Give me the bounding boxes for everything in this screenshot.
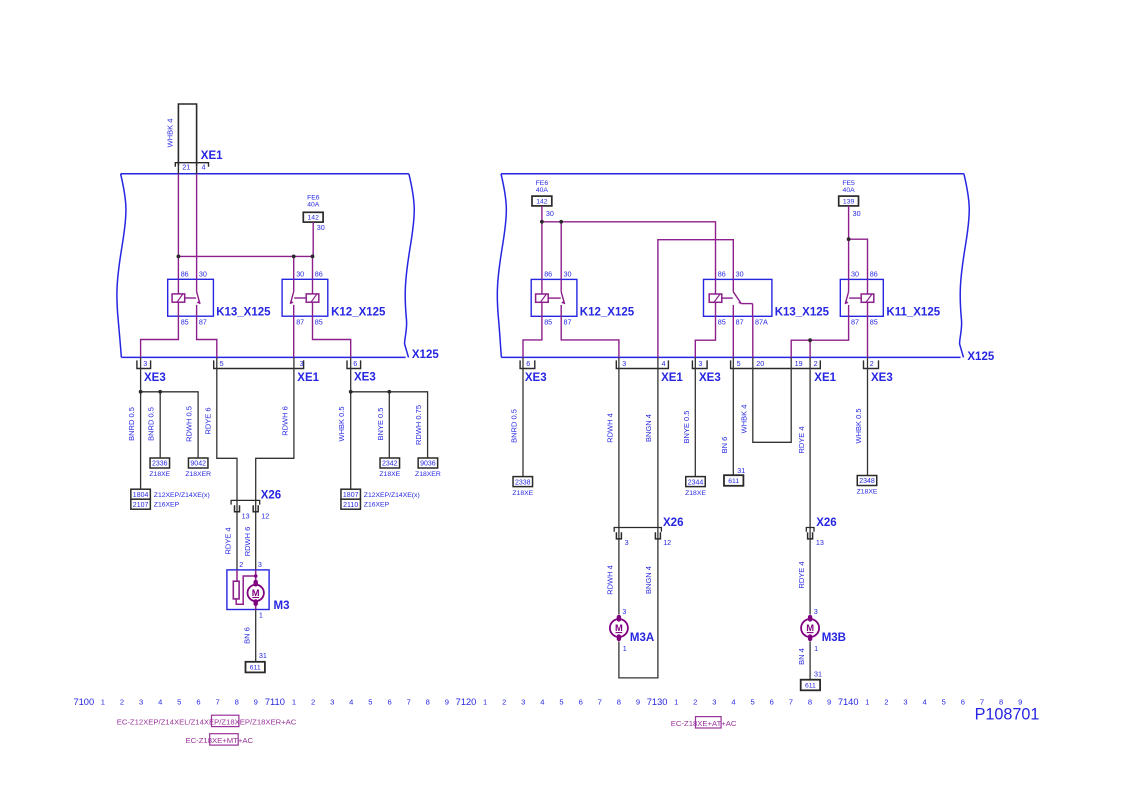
svg-text:12: 12 [663, 538, 671, 547]
link box (line 2) [210, 734, 239, 745]
svg-text:6: 6 [961, 698, 965, 707]
svg-text:31: 31 [259, 651, 267, 660]
svg-text:3: 3 [903, 698, 907, 707]
svg-text:FE6: FE6 [536, 180, 549, 187]
svg-text:M: M [615, 622, 623, 633]
svg-text:8: 8 [808, 698, 812, 707]
svg-text:87: 87 [199, 318, 207, 327]
svg-text:M3: M3 [274, 600, 290, 612]
fuse/relay box X125 (right) outline [501, 173, 964, 175]
wire BN 6 to ground 611 [732, 357, 734, 475]
svg-text:X125: X125 [412, 349, 439, 361]
svg-text:7100: 7100 [73, 697, 94, 707]
svg-text:30: 30 [199, 270, 207, 279]
svg-text:9042: 9042 [190, 461, 206, 468]
svg-text:XE3: XE3 [871, 372, 893, 384]
svg-text:6: 6 [526, 359, 530, 368]
svg-text:Z18XE: Z18XE [379, 471, 400, 478]
svg-text:30: 30 [564, 270, 572, 279]
connector XE3 pin 3 (left) [137, 360, 151, 368]
fuse/relay box X125 (left) outline [121, 173, 409, 175]
wire K11-85 to XE3 pin 2 [867, 316, 869, 357]
svg-text:FE6: FE6 [307, 195, 320, 202]
svg-text:1: 1 [865, 698, 869, 707]
connector XE1 pins 5/20/19/2 [731, 360, 821, 368]
svg-text:Z18XE: Z18XE [512, 490, 533, 497]
svg-text:611: 611 [250, 664, 261, 671]
svg-text:85: 85 [315, 318, 323, 327]
svg-text:5: 5 [220, 359, 224, 368]
svg-text:BNYE 0.5: BNYE 0.5 [682, 411, 691, 444]
svg-text:40A: 40A [307, 202, 320, 209]
svg-text:3: 3 [814, 607, 818, 616]
svg-text:X26: X26 [261, 490, 281, 502]
svg-text:6: 6 [387, 698, 391, 707]
svg-text:3: 3 [258, 560, 262, 569]
svg-text:XE1: XE1 [814, 372, 836, 384]
svg-text:XE3: XE3 [354, 371, 376, 383]
wire K12-85 to XE3 pin 6 [313, 316, 351, 357]
svg-text:WHBK 0.5: WHBK 0.5 [337, 406, 346, 441]
svg-text:Z18XE: Z18XE [857, 489, 878, 496]
code box 2338 Z18XE [513, 477, 533, 487]
junction node [808, 338, 812, 342]
wire M3 pin 3 to motor [255, 570, 257, 580]
wire branch down to 2336 [159, 392, 161, 459]
svg-text:BNYE 0.5: BNYE 0.5 [376, 408, 385, 441]
code boxes 1807/2110 [341, 489, 361, 499]
wire XE1-4 down to K13 switch 30 [196, 174, 198, 279]
wire supply bus 30 (right section) [542, 222, 716, 280]
svg-text:3: 3 [300, 359, 304, 368]
junction node [158, 390, 162, 394]
svg-text:WHBK 0.5: WHBK 0.5 [854, 408, 863, 443]
svg-text:2348: 2348 [859, 478, 875, 485]
svg-text:87: 87 [296, 318, 304, 327]
svg-text:2: 2 [693, 698, 697, 707]
svg-text:2110: 2110 [343, 502, 358, 509]
connector XE3 pin 3 (right) [692, 360, 707, 368]
svg-text:WHBK 4: WHBK 4 [165, 119, 174, 148]
svg-text:2: 2 [120, 698, 124, 707]
connector XE3 pin 6 (right) [520, 360, 535, 368]
svg-text:Z18XE: Z18XE [149, 471, 170, 478]
wire resistor loop to motor junction [236, 576, 256, 604]
svg-text:7: 7 [598, 698, 602, 707]
svg-text:Z12XEP/Z14XE(x): Z12XEP/Z14XE(x) [154, 492, 210, 499]
svg-text:2: 2 [311, 698, 315, 707]
connector XE1 pins 5/3 (left) [214, 360, 304, 368]
svg-text:8: 8 [617, 698, 621, 707]
svg-text:6: 6 [196, 698, 200, 707]
wire BNRD 0.5 from XE3-3 [140, 357, 142, 488]
svg-text:31: 31 [814, 670, 822, 679]
code box 9042 Z18XER [188, 458, 208, 468]
connector X26 (pins 13/12) [231, 500, 260, 504]
code box 2344 Z18XE [686, 477, 706, 487]
wire K12-87 to XE1 pin 3 [293, 316, 295, 357]
wire WHBK 0.5 to 2348 [867, 357, 869, 475]
svg-text:9: 9 [254, 698, 258, 707]
svg-text:142: 142 [536, 198, 548, 205]
svg-text:20: 20 [756, 359, 764, 368]
svg-text:XE1: XE1 [297, 372, 319, 384]
svg-text:85: 85 [181, 318, 189, 327]
svg-text:XE3: XE3 [525, 372, 547, 384]
svg-text:86: 86 [181, 270, 189, 279]
svg-text:K13_X125: K13_X125 [775, 307, 830, 319]
svg-text:6: 6 [353, 359, 357, 368]
svg-text:4: 4 [731, 698, 735, 707]
svg-text:5: 5 [737, 359, 741, 368]
svg-text:5: 5 [942, 698, 946, 707]
svg-text:X26: X26 [663, 517, 683, 529]
wire bus branch to K12 pin 30 [293, 256, 295, 279]
svg-text:31: 31 [737, 466, 745, 475]
svg-text:30: 30 [317, 223, 325, 232]
wire pin4 to X125 edge [196, 167, 198, 174]
link box (line 1) [212, 715, 239, 726]
svg-text:P108701: P108701 [975, 706, 1040, 724]
svg-text:K11_X125: K11_X125 [886, 307, 940, 319]
svg-text:RDWH 6: RDWH 6 [243, 527, 252, 557]
svg-text:BN 6: BN 6 [242, 627, 251, 644]
svg-text:2342: 2342 [382, 461, 398, 468]
svg-text:611: 611 [805, 682, 816, 689]
relay K12_X125 (right) [531, 279, 577, 316]
svg-text:RDWH 4: RDWH 4 [605, 565, 614, 595]
wire K13-85 to XE3 pin 3 [141, 316, 179, 357]
svg-text:3: 3 [622, 607, 626, 616]
svg-text:1: 1 [292, 698, 296, 707]
svg-text:3: 3 [521, 698, 525, 707]
svg-text:2: 2 [814, 359, 818, 368]
svg-text:Z16XEP: Z16XEP [364, 502, 390, 509]
resistor (M3 internal) [236, 570, 238, 581]
svg-text:1: 1 [101, 698, 105, 707]
wire XE1-21 down to K13 coil 86 [177, 174, 179, 279]
svg-text:4: 4 [662, 359, 666, 368]
svg-text:EC-Z18XE+MT+AC: EC-Z18XE+MT+AC [186, 736, 254, 745]
junction node [387, 390, 391, 394]
svg-text:85: 85 [718, 318, 726, 327]
svg-text:4: 4 [922, 698, 926, 707]
svg-text:40A: 40A [536, 187, 549, 194]
wire BNYE 0.5 to 2344 [694, 357, 696, 477]
svg-text:142: 142 [308, 215, 320, 222]
wire bus branch to K12 pin 30 [560, 222, 562, 280]
wire branch to 2342 / 9036 [351, 392, 428, 459]
svg-text:3: 3 [143, 359, 147, 368]
code box 2336 Z18XE [150, 458, 170, 468]
code box 2342 Z18XE [380, 458, 400, 468]
wire BN 6 from M3-1 to ground 611 [255, 610, 257, 662]
svg-text:86: 86 [870, 270, 878, 279]
svg-text:K13_X125: K13_X125 [216, 307, 271, 319]
svg-text:XE1: XE1 [201, 150, 223, 162]
wire K13-85 to XE3 pin 3 [695, 316, 715, 357]
junction node (M3 internal) [254, 574, 258, 578]
svg-text:2: 2 [870, 359, 874, 368]
svg-text:19: 19 [795, 359, 803, 368]
relay K11_X125 [840, 279, 883, 316]
connector XE1 pins 3/4 (right) [616, 360, 668, 368]
motor M (M3) [248, 585, 264, 601]
svg-text:85: 85 [544, 318, 552, 327]
svg-text:K12_X125: K12_X125 [580, 307, 635, 319]
svg-text:7: 7 [407, 698, 411, 707]
junction node [139, 390, 143, 394]
svg-text:2107: 2107 [133, 502, 149, 509]
svg-text:2344: 2344 [688, 479, 704, 486]
svg-text:9: 9 [636, 698, 640, 707]
blower motor M3 assembly box [227, 570, 269, 610]
svg-text:21: 21 [182, 163, 190, 172]
svg-text:40A: 40A [843, 187, 856, 194]
svg-text:3: 3 [712, 698, 716, 707]
svg-text:BNGN 4: BNGN 4 [644, 566, 653, 594]
svg-text:6: 6 [770, 698, 774, 707]
svg-text:7: 7 [215, 698, 219, 707]
svg-text:87A: 87A [755, 318, 768, 327]
svg-text:1: 1 [483, 698, 487, 707]
svg-text:9: 9 [827, 698, 831, 707]
wire FE5 to K11 pin 30 [848, 206, 850, 280]
ground box 611 (M3) [246, 662, 265, 673]
svg-text:87: 87 [736, 318, 744, 327]
svg-text:RDWH 0.75: RDWH 0.75 [414, 405, 423, 445]
svg-text:Z18XER: Z18XER [185, 471, 211, 478]
motor M3A [610, 619, 628, 637]
svg-text:BNRD 0.5: BNRD 0.5 [147, 407, 156, 441]
svg-text:30: 30 [546, 209, 554, 218]
svg-text:3: 3 [330, 698, 334, 707]
svg-text:BNGN 4: BNGN 4 [644, 414, 653, 442]
svg-text:RDWH 4: RDWH 4 [605, 413, 614, 443]
wire pin21 to X125 edge [177, 167, 179, 174]
svg-text:2: 2 [502, 698, 506, 707]
wire K12-85 to XE3 pin 6 [523, 316, 542, 357]
ground box 611 (mid) [724, 475, 743, 486]
wire BN 4 from M3B-1 to ground 611 [809, 641, 811, 679]
relay K13_X125 (left) [168, 279, 214, 316]
svg-text:3: 3 [698, 359, 702, 368]
svg-text:1: 1 [623, 644, 627, 653]
ground box 611 (M3B) [801, 680, 820, 691]
svg-text:30: 30 [736, 270, 744, 279]
svg-text:1807: 1807 [343, 492, 359, 499]
svg-text:M3B: M3B [822, 632, 846, 644]
wire M3 motor to pin 1 [255, 605, 257, 609]
svg-text:139: 139 [843, 198, 855, 205]
svg-text:7140: 7140 [838, 697, 859, 707]
svg-text:8: 8 [235, 698, 239, 707]
svg-text:BN 6: BN 6 [720, 437, 729, 454]
svg-text:RDWH 0.5: RDWH 0.5 [185, 406, 194, 442]
svg-text:8: 8 [426, 698, 430, 707]
svg-text:9036: 9036 [420, 461, 436, 468]
wire RDWH 6 from XE1-3 to X26-12 [256, 357, 294, 570]
wire K12-87 to XE1 pin 3 [561, 316, 619, 357]
code boxes 1804/2107 [131, 489, 151, 499]
code box 9036 Z18XER [418, 458, 438, 468]
wire WHBK 0.5 from XE3-6 [350, 357, 352, 488]
junction node (bus / K12-86) [311, 255, 315, 259]
svg-text:87: 87 [564, 318, 572, 327]
svg-text:7120: 7120 [456, 697, 477, 707]
svg-text:30: 30 [853, 209, 861, 218]
svg-text:3: 3 [625, 538, 629, 547]
svg-text:WHBK 4: WHBK 4 [740, 405, 749, 434]
svg-text:M: M [806, 622, 814, 633]
svg-text:5: 5 [368, 698, 372, 707]
svg-text:2: 2 [239, 560, 243, 569]
connector XE1 (top, pins 21/4) [175, 163, 208, 167]
wire FE6 to bus node [312, 222, 314, 256]
junction node (bus / K12-30) [292, 255, 296, 259]
svg-text:RDYE 4: RDYE 4 [797, 426, 806, 453]
svg-text:12: 12 [261, 512, 269, 521]
svg-text:M3A: M3A [630, 632, 654, 644]
motor M3B [801, 619, 819, 637]
svg-text:K12_X125: K12_X125 [331, 307, 386, 319]
wire branch down to 2342 [388, 392, 390, 459]
svg-text:2338: 2338 [515, 479, 531, 486]
svg-text:XE3: XE3 [144, 372, 166, 384]
junction node [540, 220, 544, 224]
svg-text:2: 2 [884, 698, 888, 707]
svg-text:3: 3 [622, 359, 626, 368]
wire FE5 branch to K11 pin 86 [849, 239, 868, 279]
wire K13-87A to pin 20 [752, 316, 754, 357]
connector X26 (pin 13) [806, 528, 814, 532]
svg-text:3: 3 [139, 698, 143, 707]
svg-text:M: M [252, 587, 260, 598]
wire K13 pin 30 feed (via XE1-4 net) [658, 240, 733, 358]
wire K13-87 to XE1 pin 5 [197, 316, 217, 357]
svg-text:30: 30 [851, 270, 859, 279]
svg-text:FE5: FE5 [842, 180, 855, 187]
relay K13_X125 (right) [704, 279, 772, 316]
svg-text:7: 7 [789, 698, 793, 707]
svg-text:5: 5 [177, 698, 181, 707]
svg-text:Z18XER: Z18XER [415, 471, 441, 478]
svg-text:85: 85 [870, 318, 878, 327]
svg-text:BNRD 0.5: BNRD 0.5 [510, 409, 519, 443]
junction node (bus / K13-86) [177, 255, 181, 259]
wire RDWH 4 from XE1-3 to X26-3 [618, 357, 620, 614]
svg-text:7130: 7130 [647, 697, 668, 707]
svg-text:X125: X125 [967, 351, 994, 363]
wire RDYE 6 from XE1-5 to X26-13 [217, 357, 237, 570]
wire WHBK 4 loop pin 20 to pin 19 [753, 357, 791, 442]
svg-text:1: 1 [259, 611, 263, 620]
wire RDYE 4 from XE1-2 to X26-13 [809, 357, 811, 614]
svg-text:Z16XEP: Z16XEP [154, 502, 180, 509]
svg-text:XE3: XE3 [699, 372, 721, 384]
svg-text:6: 6 [579, 698, 583, 707]
svg-text:611: 611 [728, 478, 739, 485]
svg-text:BN 4: BN 4 [797, 648, 806, 665]
junction node [559, 220, 563, 224]
wire bus down to K12 pin 86 [541, 222, 543, 280]
link box (line 3) [696, 717, 722, 728]
wire K11-87 to pin 19 and XE1-2 [791, 316, 848, 357]
truncated supply wire pair (top left) [178, 104, 196, 167]
svg-text:4: 4 [540, 698, 544, 707]
junction node [847, 237, 851, 241]
svg-text:30: 30 [296, 270, 304, 279]
wire fuse to K12 pin 86 [312, 256, 314, 279]
svg-text:4: 4 [349, 698, 353, 707]
svg-text:1804: 1804 [133, 492, 149, 499]
relay K12_X125 (left) [282, 279, 328, 316]
svg-text:5: 5 [559, 698, 563, 707]
svg-text:2336: 2336 [152, 461, 168, 468]
wire branch to 2336 / 9042 [141, 392, 199, 459]
svg-text:13: 13 [816, 538, 824, 547]
svg-text:13: 13 [242, 512, 250, 521]
svg-text:Z12XEP/Z14XE(x): Z12XEP/Z14XE(x) [364, 492, 420, 499]
svg-text:RDYE 4: RDYE 4 [224, 527, 233, 554]
wire FE6 right to bus [541, 206, 543, 222]
svg-text:9: 9 [445, 698, 449, 707]
svg-text:5: 5 [750, 698, 754, 707]
svg-text:X26: X26 [816, 517, 836, 529]
svg-text:4: 4 [158, 698, 162, 707]
svg-text:BNRD 0.5: BNRD 0.5 [127, 407, 136, 441]
connector XE3 pin 6 (left) [347, 360, 361, 368]
wire BNRD 0.5 to 2338 [522, 357, 524, 477]
svg-text:Z18XE: Z18XE [685, 490, 706, 497]
svg-text:RDWH 6: RDWH 6 [281, 406, 290, 436]
wire BNGN 4 from XE1-4 to X26-12 [619, 357, 658, 678]
svg-text:86: 86 [544, 270, 552, 279]
junction node [349, 390, 353, 394]
code box 2348 Z18XE [857, 476, 877, 486]
wire supply bus 30 (left section) [178, 255, 314, 257]
svg-text:XE1: XE1 [661, 372, 683, 384]
connector XE3 pin 2 (right) [864, 360, 879, 368]
svg-text:RDYE 4: RDYE 4 [797, 561, 806, 588]
svg-text:RDYE 6: RDYE 6 [204, 407, 213, 434]
wire K13-87 to pin 5 [732, 316, 734, 357]
svg-text:1: 1 [674, 698, 678, 707]
wire branch to XE1 pin 2 [809, 340, 811, 357]
svg-text:86: 86 [718, 270, 726, 279]
svg-text:4: 4 [202, 163, 206, 172]
svg-text:7110: 7110 [265, 697, 285, 707]
svg-text:1: 1 [814, 644, 818, 653]
svg-text:EC-Z18XE+AT+AC: EC-Z18XE+AT+AC [671, 719, 737, 728]
svg-text:EC-Z12XEP/Z14XEL/Z14XEP/Z18XEP: EC-Z12XEP/Z14XEL/Z14XEP/Z18XEP/Z18XER+AC [117, 717, 297, 726]
svg-text:86: 86 [315, 270, 323, 279]
svg-text:87: 87 [851, 318, 859, 327]
connector X26 (pins 3/12) [614, 528, 661, 532]
